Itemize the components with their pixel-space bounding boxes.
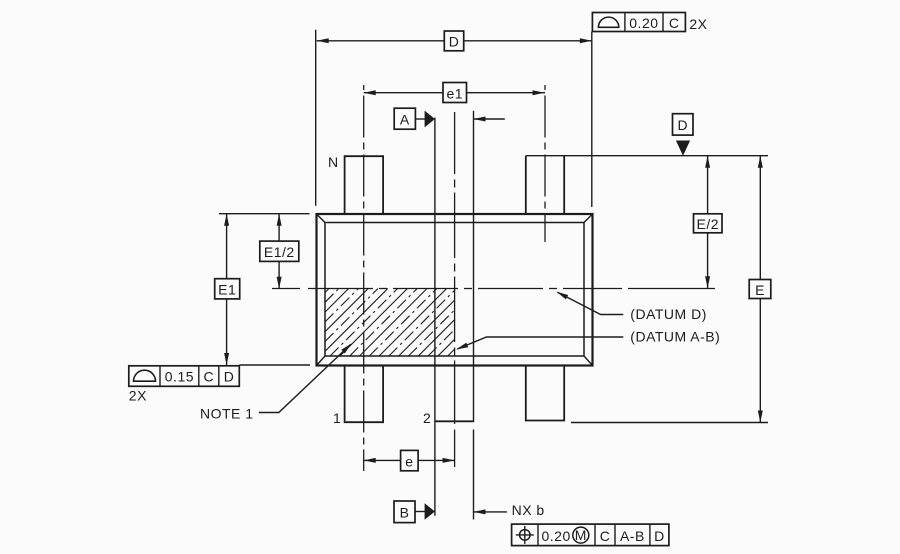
svg-text:2: 2 [423, 410, 431, 426]
datum B label and triangle [394, 501, 435, 523]
svg-text:C: C [203, 369, 214, 385]
svg-text:D: D [654, 528, 665, 544]
datum D label and filled triangle [673, 114, 694, 156]
svg-text:C: C [669, 15, 680, 31]
svg-text:NX b: NX b [512, 502, 545, 518]
svg-text:D: D [449, 34, 460, 50]
svg-text:N: N [328, 154, 339, 170]
pin number label 1 [333, 410, 341, 426]
svg-text:0.20: 0.20 [542, 528, 571, 544]
svg-text:E/2: E/2 [697, 216, 720, 232]
wire: datum A-B left extension line (lead 2 left edge) [434, 118, 436, 516]
svg-text:M: M [575, 527, 587, 543]
dimension E1 (body height) [215, 214, 310, 365]
annotation (DATUM A-B) with leader [456, 328, 720, 349]
feature control frame: profile 0.20 C 2X (top right) [592, 13, 707, 33]
dimension E1/2 (half body height) [260, 214, 299, 289]
pin number label 2 [423, 410, 431, 426]
lead 1 (bottom left pin) [345, 366, 384, 423]
wire: horizontal center line (datum D axis) [272, 288, 715, 290]
svg-text:E: E [755, 282, 765, 298]
wire: lead 2 center line [454, 112, 456, 467]
arrow to datum B extension line (top) [474, 117, 505, 122]
dimension E/2 (half height) [694, 156, 723, 289]
svg-text:(DATUM A-B): (DATUM A-B) [630, 328, 720, 344]
dimension E (overall height across pins) [749, 156, 771, 423]
node: hatched region (NOTE 1 shaded area) [325, 289, 455, 357]
dimension e (pin pitch) [364, 450, 455, 470]
svg-text:e1: e1 [447, 85, 464, 101]
wire: E dimension bottom extension line [571, 422, 768, 424]
lead N (top left pin) [345, 156, 384, 214]
svg-text:2X: 2X [689, 16, 707, 32]
feature control frame: profile 0.15 C D 2X (left) [129, 366, 240, 404]
package body outline [317, 214, 593, 366]
svg-text:C: C [600, 528, 611, 544]
top right pin with datum D extension line [526, 156, 768, 214]
wire: datum A-B right extension line (lead 2 right edge) [473, 111, 475, 520]
svg-text:1: 1 [333, 410, 341, 426]
annotation NOTE 1 with leader [200, 343, 352, 421]
lead 3 (bottom right pin) [526, 366, 564, 421]
pin number label N [328, 154, 339, 170]
svg-text:(DATUM D): (DATUM D) [630, 306, 707, 322]
lead width callout NX b [474, 502, 545, 518]
wire: lead 1 / pin N center line [363, 85, 365, 471]
svg-text:0.20: 0.20 [629, 15, 658, 31]
svg-text:D: D [677, 117, 688, 133]
svg-text:NOTE 1: NOTE 1 [200, 406, 254, 422]
svg-text:E1: E1 [218, 282, 236, 298]
annotation (DATUM D) with leader [556, 292, 706, 323]
svg-text:A-B: A-B [620, 528, 645, 544]
wire: top right pin center line [544, 85, 546, 242]
svg-text:A: A [400, 112, 410, 128]
svg-text:2X: 2X [129, 388, 147, 404]
lead 2 (bottom center pin) bottom edge [435, 420, 474, 422]
svg-text:B: B [400, 505, 410, 521]
svg-text:E1/2: E1/2 [264, 244, 295, 260]
datum A label and triangle [394, 108, 435, 129]
svg-text:D: D [224, 369, 235, 385]
svg-text:e: e [405, 453, 413, 469]
dimension e1 (outer pin pitch) [364, 83, 545, 103]
svg-text:0.15: 0.15 [165, 369, 194, 385]
dimension D (overall width) [316, 30, 592, 207]
feature control frame: position 0.20 M C A-B D (bottom) [512, 524, 669, 546]
